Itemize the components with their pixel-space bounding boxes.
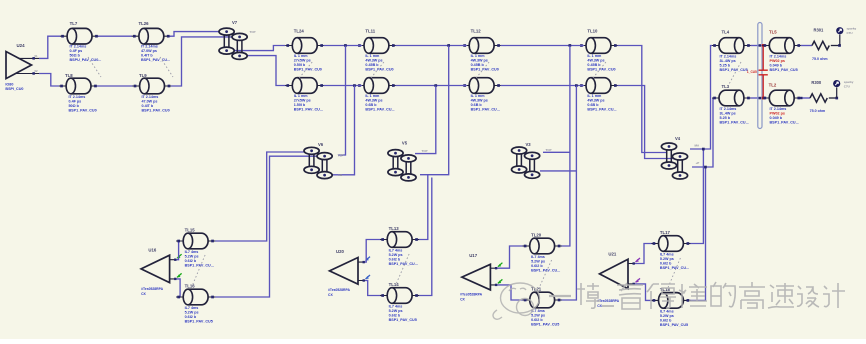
- transmission line TL15: [176, 228, 215, 268]
- svg-text:0.6B b: 0.6B b: [587, 103, 599, 107]
- svg-text:0.6I2 b: 0.6I2 b: [185, 315, 197, 319]
- svg-text:BSP1_PAV_CU...: BSP1_PAV_CU...: [471, 108, 500, 112]
- via V6: [304, 142, 344, 179]
- svg-text:IL 1 mm: IL 1 mm: [471, 94, 486, 98]
- svg-text:BSPI_CU0: BSPI_CU0: [5, 87, 23, 91]
- wire TL24 to TL11 (P row): [324, 45, 363, 47]
- junction drop to V5 (P): [447, 44, 450, 47]
- svg-text:C7U: C7U: [844, 84, 850, 88]
- wire U21 pin2 to TL18: [635, 284, 652, 301]
- svg-text:IT 2.14ms: IT 2.14ms: [720, 107, 737, 111]
- svg-text:0.4F ps: 0.4F ps: [69, 99, 82, 103]
- watermark text (stylized): [549, 282, 845, 309]
- coupling dashes TL7-TL8: [88, 57, 101, 77]
- svg-text:TCP: TCP: [338, 153, 344, 157]
- wire U16 pin1 to TL15: [177, 241, 179, 260]
- wire U17 pin1 to TL20: [497, 246, 523, 268]
- svg-text:IL 1 mm: IL 1 mm: [587, 54, 602, 58]
- svg-text:BSP1_PAV_CU0: BSP1_PAV_CU0: [587, 68, 615, 72]
- transmission line below TL10: [579, 78, 618, 112]
- svg-text:4W.3W ps: 4W.3W ps: [587, 59, 604, 63]
- svg-text:#Tes0528RPA: #Tes0528RPA: [328, 288, 350, 292]
- svg-text:V5: V5: [402, 141, 408, 146]
- svg-text:V6: V6: [318, 142, 324, 147]
- via V7: [219, 20, 256, 59]
- svg-text:75.0 ohm: 75.0 ohm: [812, 57, 828, 61]
- coupling dashes TL20-TL21: [539, 260, 552, 289]
- svg-text:0.45B b: 0.45B b: [365, 63, 379, 67]
- svg-text:IT 2.14ms: IT 2.14ms: [141, 45, 158, 49]
- svg-text:TL17: TL17: [660, 230, 671, 235]
- svg-text:CX: CX: [597, 304, 602, 308]
- svg-text:0.6I2 b: 0.6I2 b: [531, 318, 543, 322]
- receiver U21: [597, 252, 640, 309]
- svg-text:BSP1_PAV_CU...: BSP1_PAV_CU...: [531, 269, 560, 273]
- svg-text:5.2W ps: 5.2W ps: [531, 314, 545, 318]
- transmission line TL20: [523, 233, 562, 273]
- svg-text:47.0W ps: 47.0W ps: [142, 99, 158, 103]
- via V5: [388, 141, 428, 181]
- wire via V6 to TL15 output: [215, 152, 308, 241]
- svg-text:5.25 b: 5.25 b: [720, 116, 731, 120]
- wire TL10b to via V4 (N): [618, 86, 677, 159]
- svg-text:0.6I2 b: 0.6I2 b: [389, 314, 401, 318]
- svg-text:TCP: TCP: [546, 148, 552, 152]
- wire via V4 down to TL18 output: [690, 167, 706, 300]
- coupling dashes TL15-TL16: [192, 255, 205, 286]
- svg-text:0.50I b: 0.50I b: [294, 63, 306, 67]
- resistor R301: [812, 28, 829, 62]
- wire top band to TL20 output (P, via V3 tap): [561, 46, 570, 247]
- svg-text:TL15: TL15: [185, 228, 196, 233]
- svg-text:0.45B b: 0.45B b: [471, 63, 485, 67]
- svg-text:PW02 ps: PW02 ps: [770, 112, 785, 116]
- svg-text:R300: R300: [811, 80, 822, 85]
- svg-text:V4: V4: [675, 136, 681, 141]
- svg-text:4W.3W ps: 4W.3W ps: [365, 59, 382, 63]
- transmission line TL2: [762, 83, 801, 125]
- transmission line below TL24: [285, 78, 324, 112]
- svg-text:27x5W ps: 27x5W ps: [294, 99, 311, 103]
- junction drop to V3 (P): [569, 44, 572, 47]
- svg-text:50Ω b: 50Ω b: [69, 104, 80, 108]
- svg-text:TL7: TL7: [70, 21, 78, 26]
- svg-text:5.2W ps: 5.2W ps: [531, 260, 545, 264]
- svg-text:IT 2.14ms: IT 2.14ms: [69, 95, 86, 99]
- svg-text:TL8: TL8: [65, 73, 73, 78]
- svg-text:02: 02: [35, 69, 39, 73]
- svg-text:47.0W ps: 47.0W ps: [141, 49, 157, 53]
- transmission line TL17: [651, 230, 690, 270]
- wire via V5 to TL13 output: [418, 175, 428, 240]
- svg-text:BSP1_PAV_CU...: BSP1_PAV_CU...: [720, 121, 749, 125]
- svg-text:R301: R301: [814, 28, 825, 33]
- coupling dashes TL26-TL9: [160, 57, 173, 77]
- wire TL5 to R301: [801, 45, 812, 47]
- svg-text:3L.4W ps: 3L.4W ps: [720, 59, 736, 63]
- junction drop to V6 (P): [344, 44, 347, 47]
- svg-text:TL4: TL4: [722, 30, 730, 35]
- wire TL11b to TL12b (N row): [396, 85, 468, 87]
- svg-text:75.0 ohm: 75.0 ohm: [810, 109, 826, 113]
- receiver U16: [141, 248, 182, 297]
- transmission line TL14: [380, 282, 419, 322]
- svg-text:IL 1 mm: IL 1 mm: [365, 94, 380, 98]
- svg-text:U24: U24: [17, 43, 26, 48]
- svg-text:TL16: TL16: [185, 284, 196, 289]
- svg-text:C7U: C7U: [847, 31, 853, 35]
- svg-text:IL 1 mm: IL 1 mm: [294, 54, 309, 58]
- svg-text:IL7 4ms: IL7 4ms: [389, 249, 403, 253]
- svg-text:BSP1_PAV_CU5: BSP1_PAV_CU5: [389, 318, 417, 322]
- svg-text:BSP1_PAV_CU...: BSP1_PAV_CU...: [294, 108, 323, 112]
- watermark logo circle: [493, 283, 540, 319]
- svg-text:U20: U20: [336, 249, 344, 254]
- svg-text:0.6I2 b: 0.6I2 b: [389, 258, 401, 262]
- svg-text:IT 2.14ms: IT 2.14ms: [770, 55, 787, 59]
- svg-text:5.2W ps: 5.2W ps: [185, 311, 199, 315]
- wire via V4 to right block (N): [692, 98, 713, 167]
- svg-text:BSP1_PAV_CU0: BSP1_PAV_CU0: [471, 68, 499, 72]
- svg-text:BSP1_PAV_CU0: BSP1_PAV_CU0: [365, 68, 393, 72]
- transmission line TL12: [462, 29, 501, 72]
- wire TL12b to TL10b (N row): [501, 85, 585, 87]
- svg-text:5.2W ps: 5.2W ps: [389, 309, 403, 313]
- svg-text:TL24: TL24: [294, 29, 305, 34]
- wire TL3 to TL2: [751, 97, 764, 99]
- svg-text:0.6I2 b: 0.6I2 b: [185, 259, 197, 263]
- svg-text:BSP1_PAV_CU5: BSP1_PAV_CU5: [770, 68, 798, 72]
- transmission line TL13: [380, 226, 419, 266]
- wire via V7 to TL24 (P): [228, 46, 286, 51]
- svg-text:BSP1_PAV_CU...: BSP1_PAV_CU...: [587, 108, 616, 112]
- svg-text:0.6I2 b: 0.6I2 b: [660, 319, 672, 323]
- wire TL8 to TL9: [97, 85, 133, 87]
- coupling dashes TL12 column: [476, 62, 489, 78]
- svg-text:BSP1_PAV_CU5: BSP1_PAV_CU5: [185, 320, 213, 324]
- svg-text:IL7 4ms: IL7 4ms: [185, 250, 199, 254]
- coupling dashes TL13-TL14: [396, 254, 409, 284]
- wire U17 pin2 to TL21: [497, 285, 523, 300]
- wire via V5 to TL14 output: [418, 178, 432, 296]
- svg-text:IL7 4ms: IL7 4ms: [660, 309, 674, 313]
- svg-text:BSP1_PAV_CU5: BSP1_PAV_CU5: [720, 68, 748, 72]
- resistor R300: [810, 80, 828, 113]
- svg-text:V7: V7: [232, 20, 238, 25]
- transmission line TL9: [133, 73, 172, 113]
- svg-text:IL 1 mm: IL 1 mm: [587, 94, 602, 98]
- svg-text:0.6I2 b: 0.6I2 b: [660, 262, 672, 266]
- svg-text:BSP1_PAV_CU...: BSP1_PAV_CU...: [389, 262, 418, 266]
- svg-text:4W.3W ps: 4W.3W ps: [365, 99, 382, 103]
- svg-text:5.2W ps: 5.2W ps: [660, 314, 674, 318]
- wire TL24b to TL11b (N row): [324, 85, 363, 87]
- svg-text:0.4F ps: 0.4F ps: [70, 49, 83, 53]
- transmission line TL8: [59, 73, 98, 113]
- svg-text:TL14: TL14: [389, 282, 400, 287]
- svg-text:TL10: TL10: [587, 29, 598, 34]
- receiver U20: [328, 249, 370, 297]
- svg-text:#Tes0528RPA: #Tes0528RPA: [460, 293, 482, 297]
- wire top band to via V5 (P drop): [420, 46, 449, 175]
- svg-text:BSP1_PAV_CU...: BSP1_PAV_CU...: [185, 264, 214, 268]
- transmission line TL16: [176, 284, 215, 324]
- wire TL4 to TL5: [751, 45, 764, 47]
- wire TL7 to TL26: [98, 35, 132, 37]
- transmission line TL10: [579, 29, 618, 72]
- via V3: [511, 142, 551, 178]
- wire top band to via V5 (N drop): [415, 86, 436, 154]
- svg-text:4W.3W ps: 4W.3W ps: [471, 59, 488, 63]
- via V4: [661, 136, 700, 179]
- wire top band to via V6 (P drop): [338, 46, 346, 156]
- svg-text:BSP1_PAV_CU...: BSP1_PAV_CU...: [365, 108, 394, 112]
- svg-text:5.2W ps: 5.2W ps: [389, 253, 403, 257]
- svg-text:#Tes0528RPA: #Tes0528RPA: [141, 287, 163, 291]
- svg-text:50Ω b: 50Ω b: [70, 54, 81, 58]
- wire TL26 to via V7 (P): [170, 32, 227, 37]
- wire via V4 down to TL17 output: [690, 149, 704, 244]
- svg-text:IL7 4ms: IL7 4ms: [531, 255, 545, 259]
- wire TL11 to TL12 (P row): [396, 45, 468, 47]
- svg-text:IL 1 mm: IL 1 mm: [365, 54, 380, 58]
- wire U20 pin1 to TL13: [365, 240, 381, 263]
- svg-text:IT 2.14ms: IT 2.14ms: [720, 55, 737, 59]
- svg-text:IT 2.14ms: IT 2.14ms: [142, 95, 159, 99]
- wire U21 pin1 to TL17: [635, 244, 652, 264]
- wire via V4 to right block (P): [690, 46, 712, 150]
- svg-text:BSP1_PAV_CU5: BSP1_PAV_CU5: [531, 323, 559, 327]
- svg-text:BSP1_PAV_CU5: BSP1_PAV_CU5: [660, 323, 688, 327]
- svg-text:CX: CX: [460, 298, 465, 302]
- coupling dashes TL4-TL3: [728, 62, 741, 86]
- svg-text:BSP1_PAV_CU0: BSP1_PAV_CU0: [69, 108, 97, 112]
- transmission line TL26: [132, 21, 171, 62]
- svg-text:IT 2.14ms: IT 2.14ms: [770, 107, 787, 111]
- svg-text:CX: CX: [328, 293, 333, 297]
- svg-text:IL7 4ms: IL7 4ms: [660, 253, 674, 257]
- svg-text:sparky: sparky: [847, 27, 857, 31]
- svg-text:U17: U17: [469, 253, 477, 258]
- transmission line TL21: [523, 287, 562, 327]
- svg-text:4W.3W ps: 4W.3W ps: [471, 99, 488, 103]
- transmission line TL4: [712, 30, 751, 73]
- svg-text:BSP1_PAV_CU...: BSP1_PAV_CU...: [770, 121, 799, 125]
- svg-text:TL12: TL12: [471, 29, 482, 34]
- svg-text:BSP1_PAV_CU...: BSP1_PAV_CU...: [141, 58, 170, 62]
- svg-text:TL3: TL3: [722, 84, 730, 89]
- svg-text:BSP1_PAV_CU0: BSP1_PAV_CU0: [294, 68, 322, 72]
- svg-text:TL9: TL9: [139, 73, 147, 78]
- svg-text:BSP1_PAV_CU0: BSP1_PAV_CU0: [142, 108, 170, 112]
- svg-text:0.6I2 b: 0.6I2 b: [531, 264, 543, 268]
- svg-text:PW02 ps: PW02 ps: [770, 59, 785, 63]
- svg-text:BSP1_PAV_CU...: BSP1_PAV_CU...: [660, 266, 689, 270]
- transmission line below TL12: [462, 78, 501, 112]
- capacitor C (red): [747, 44, 768, 99]
- svg-text:01: 01: [35, 54, 39, 58]
- coupling dashes TL11 column: [371, 62, 384, 78]
- transmission line TL7: [60, 21, 101, 62]
- svg-text:U21: U21: [608, 252, 616, 257]
- svg-text:U16: U16: [148, 248, 156, 253]
- wire top band to via V6 (N drop): [330, 86, 355, 175]
- svg-text:5.2W ps: 5.2W ps: [185, 255, 199, 259]
- svg-text:0.4IT b: 0.4IT b: [142, 104, 154, 108]
- svg-text:IT 2.14ms: IT 2.14ms: [70, 45, 87, 49]
- wire TL2 to R300: [801, 97, 810, 99]
- svg-text:0.049 b: 0.049 b: [770, 116, 783, 120]
- wire via V3 tap N: [540, 170, 576, 172]
- wire TL12 to TL10 (P row): [501, 45, 585, 47]
- svg-text:1_CU5: 1_CU5: [747, 70, 757, 74]
- probe (bottom): [833, 80, 854, 98]
- svg-text:+P: +P: [696, 161, 700, 165]
- wire U24 pin2 to TL8: [39, 74, 60, 87]
- wire TL9 to via V7 (N): [171, 37, 240, 86]
- svg-text:V3: V3: [526, 142, 532, 147]
- svg-text:IO80: IO80: [5, 82, 13, 86]
- driver U24: [5, 43, 39, 91]
- svg-text:TCP: TCP: [422, 149, 428, 153]
- connector symbol (tall): [758, 23, 762, 129]
- svg-text:0.6B b: 0.6B b: [365, 103, 377, 107]
- wire via V3 tap P: [543, 151, 570, 153]
- svg-text:#Tes0528RPA: #Tes0528RPA: [597, 299, 619, 303]
- svg-text:TL26: TL26: [139, 21, 150, 26]
- svg-text:TL5: TL5: [769, 30, 777, 35]
- svg-text:BSPU_PAV_CU0...: BSPU_PAV_CU0...: [70, 58, 102, 62]
- wire U20 pin2 to TL14: [365, 281, 381, 296]
- svg-text:0.049 b: 0.049 b: [770, 64, 783, 68]
- svg-text:IL7 4ms: IL7 4ms: [185, 306, 199, 310]
- transmission line TL3: [712, 84, 751, 125]
- svg-text:27x5W ps: 27x5W ps: [294, 59, 311, 63]
- svg-text:1.50I b: 1.50I b: [294, 103, 306, 107]
- wire R301 to probe node: [831, 45, 840, 47]
- svg-text:5.25 b: 5.25 b: [720, 64, 731, 68]
- wire U16 pin2 to TL16: [177, 279, 181, 297]
- coupling dashes TL17-TL18: [667, 258, 680, 289]
- svg-text:0.6B b: 0.6B b: [471, 103, 483, 107]
- coupling dashes TL10 column: [593, 62, 606, 78]
- coupling dashes TL24 column: [299, 62, 312, 78]
- svg-text:TL13: TL13: [389, 226, 400, 231]
- wire R300 to probe node: [829, 97, 837, 99]
- svg-text:IL 1 mm: IL 1 mm: [471, 54, 486, 58]
- svg-text:0.45B b: 0.45B b: [587, 63, 601, 67]
- svg-text:TL20: TL20: [531, 233, 542, 238]
- transmission line TL5: [762, 30, 801, 73]
- wire U24 pin1 to TL7: [39, 36, 60, 58]
- wire via V6 to TL16 output: [215, 156, 320, 297]
- svg-text:CX: CX: [141, 292, 146, 296]
- svg-text:5.2W ps: 5.2W ps: [660, 257, 674, 261]
- svg-text:TL2: TL2: [769, 83, 777, 88]
- svg-text:TL11: TL11: [365, 29, 375, 34]
- wire top band to TL21 output (N, via V3 tap): [561, 86, 576, 301]
- transmission line TL24: [285, 29, 324, 72]
- transmission line TL11: [357, 29, 396, 72]
- wire via V7 to lower line (N): [241, 56, 287, 86]
- svg-text:sparky: sparky: [844, 80, 854, 84]
- receiver U17: [460, 253, 502, 302]
- wire TL10 to via V4 (P): [618, 46, 667, 153]
- svg-text:4W.3W ps: 4W.3W ps: [587, 99, 604, 103]
- svg-text:IL 1 mm: IL 1 mm: [294, 94, 309, 98]
- probe (top): [836, 27, 856, 46]
- transmission line TL18: [651, 287, 690, 327]
- svg-text:0.4IT b: 0.4IT b: [141, 54, 153, 58]
- transmission line below TL11: [357, 78, 396, 112]
- svg-text:3L.4W ps: 3L.4W ps: [720, 112, 736, 116]
- svg-text:IL7 4ms: IL7 4ms: [389, 305, 403, 309]
- svg-text:TCP: TCP: [250, 30, 256, 34]
